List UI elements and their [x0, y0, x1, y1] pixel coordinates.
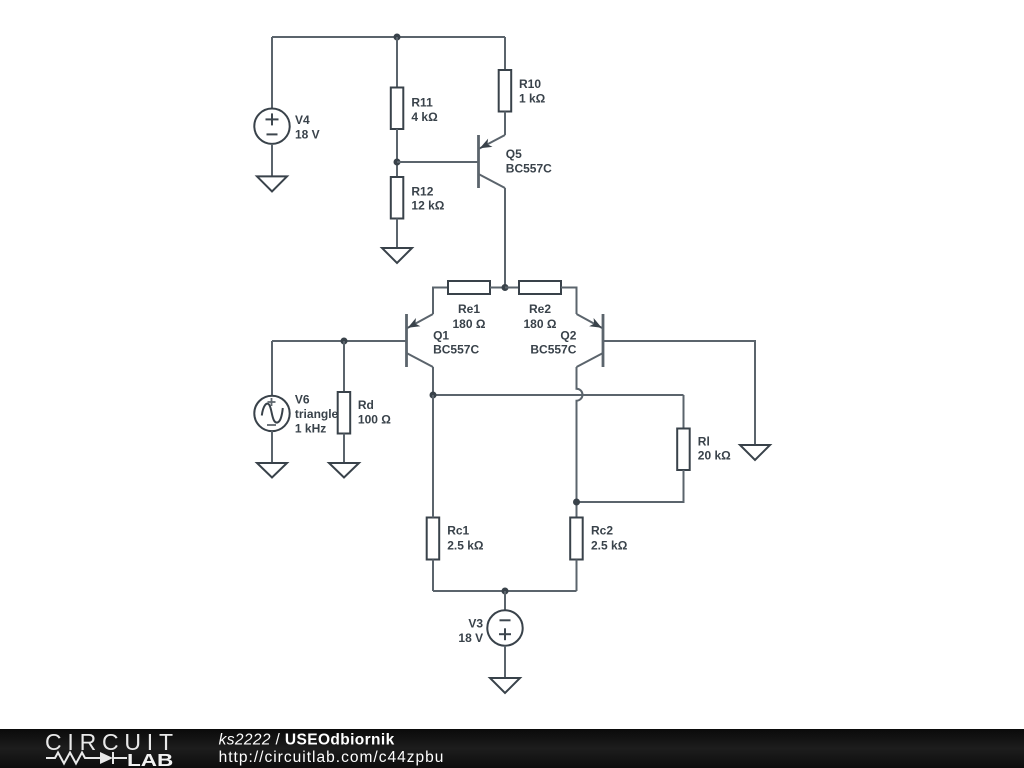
wire Rc1 bottom lead: [432, 560, 434, 592]
svg-text:BC557C: BC557C: [530, 342, 576, 356]
svg-text:1 kHz: 1 kHz: [295, 421, 326, 435]
svg-text:180 Ω: 180 Ω: [453, 317, 486, 331]
wire collector rail Q1 to Rl: [433, 394, 684, 396]
wire Q2 collector with hop over collector rail: [577, 367, 583, 518]
transistor Q1: [407, 314, 434, 367]
svg-text:1 kΩ: 1 kΩ: [519, 92, 546, 106]
svg-text:BC557C: BC557C: [506, 162, 552, 176]
transistor Q5: [479, 135, 506, 188]
svg-text:Re1: Re1: [458, 302, 480, 316]
wire Rc2 bottom lead: [576, 560, 578, 592]
voltage source V6 triangle: [254, 396, 289, 431]
resistor Re1: [448, 281, 490, 294]
resistor R10: [499, 70, 512, 112]
wire R11 bottom to R12 top: [396, 129, 398, 177]
svg-text:R10: R10: [519, 77, 541, 91]
svg-text:Q5: Q5: [506, 147, 522, 161]
ground below V6: [257, 463, 287, 478]
ground below R12: [382, 248, 412, 263]
wire R10 top lead: [504, 37, 506, 70]
svg-text:2.5 kΩ: 2.5 kΩ: [447, 538, 484, 552]
svg-text:Q2: Q2: [560, 328, 576, 342]
svg-text:180 Ω: 180 Ω: [524, 317, 557, 331]
wire Re1 left corner: [433, 288, 448, 315]
svg-text:V4: V4: [295, 113, 310, 127]
svg-text:Rc1: Rc1: [447, 524, 469, 538]
wire Rd bottom lead: [343, 434, 345, 464]
wire Q1 collector down: [432, 367, 434, 395]
wire Rd top lead: [343, 341, 345, 392]
svg-text:V6: V6: [295, 393, 310, 407]
svg-text:4 kΩ: 4 kΩ: [411, 110, 438, 124]
wire Rl bottom to Rc2 top: [577, 470, 684, 502]
wire R12 bottom lead: [396, 219, 398, 249]
svg-text:Rl: Rl: [698, 435, 710, 449]
resistor Rc1: [427, 518, 440, 560]
svg-text:ks2222 / USEOdbiornik: ks2222 / USEOdbiornik: [219, 732, 395, 749]
ground below V4: [257, 176, 287, 191]
wire V3 bottom lead: [504, 646, 506, 678]
node junction Q5 base: [394, 159, 401, 166]
wire Re2 left lead: [505, 287, 519, 289]
svg-text:Rc2: Rc2: [591, 524, 613, 538]
wire Rc1 top lead: [432, 395, 434, 518]
logo resistor-diode glyph: [46, 752, 127, 764]
resistor R11: [391, 88, 404, 130]
wire V4 bottom lead: [271, 144, 273, 176]
wire V6 top lead: [271, 341, 273, 396]
svg-text:R12: R12: [411, 184, 433, 198]
node junction Rc2 top: [573, 499, 580, 506]
svg-text:LAB: LAB: [127, 750, 173, 768]
svg-text:2.5 kΩ: 2.5 kΩ: [591, 538, 628, 552]
resistor Re2: [519, 281, 561, 294]
resistor R12: [391, 177, 404, 219]
svg-text:12 kΩ: 12 kΩ: [411, 199, 444, 213]
wire Q5 base: [397, 161, 479, 163]
svg-text:Q1: Q1: [433, 328, 449, 342]
svg-text:BC557C: BC557C: [433, 342, 479, 356]
svg-text:http://circuitlab.com/c44zpbu: http://circuitlab.com/c44zpbu: [219, 749, 444, 766]
svg-text:18 V: 18 V: [458, 631, 483, 645]
resistor Rc2: [570, 518, 583, 560]
ground below Q2 base wire: [740, 445, 770, 460]
transistor Q2: [577, 314, 604, 367]
ground below Rd: [329, 463, 359, 478]
svg-text:Rd: Rd: [358, 398, 374, 412]
wire V3 top lead: [504, 591, 506, 610]
wire top rail from V4 to R10: [272, 36, 505, 38]
wire bottom rail Rc1 to Rc2: [433, 590, 577, 592]
svg-text:V3: V3: [468, 617, 483, 631]
node junction Q1 collector: [430, 392, 437, 399]
wire Re2 right corner: [561, 288, 577, 315]
ground below V3: [490, 678, 520, 693]
wire V6 bottom lead: [271, 431, 273, 463]
footer bar: [0, 729, 1024, 768]
wire R10 bottom to Q5 emitter: [504, 112, 506, 136]
resistor Rd: [338, 392, 351, 434]
node junction Re1/Re2/Q5: [502, 284, 509, 291]
wire Rl top lead: [683, 395, 685, 429]
wire Q2 base to ground: [603, 341, 755, 445]
wire Q1 base from V6: [272, 340, 407, 342]
voltage source V4: [254, 109, 289, 144]
voltage source V3: [487, 610, 522, 645]
svg-text:R11: R11: [411, 96, 433, 110]
resistor Rl: [677, 429, 690, 471]
wire V4 top lead: [271, 37, 273, 109]
svg-text:triangle: triangle: [295, 407, 339, 421]
node junction Rd top: [341, 338, 348, 345]
wire R11 top lead: [396, 37, 398, 88]
svg-text:100 Ω: 100 Ω: [358, 412, 391, 426]
wire Re1 right lead: [490, 287, 505, 289]
wire Q5 collector down to Re junction: [504, 188, 506, 288]
svg-text:Re2: Re2: [529, 302, 551, 316]
svg-text:18 V: 18 V: [295, 127, 320, 141]
node junction top rail / R11: [394, 34, 401, 41]
node junction V3 top: [502, 588, 509, 595]
svg-text:20 kΩ: 20 kΩ: [698, 449, 731, 463]
